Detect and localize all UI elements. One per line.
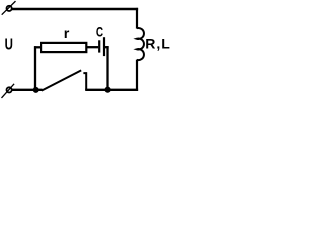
svg-text:U: U: [5, 37, 13, 54]
capacitor C: [99, 37, 108, 56]
wire top: [12, 8, 138, 10]
svg-text:r: r: [64, 26, 70, 42]
wire branch left vertical: [34, 46, 36, 90]
node B junction: [105, 87, 111, 93]
wire right lower: [136, 60, 138, 91]
node A junction: [33, 87, 39, 93]
terminal top-left: [2, 1, 16, 15]
terminal bottom-left: [2, 84, 15, 98]
svg-text:R,L: R,L: [145, 36, 171, 52]
wire lead left: [34, 46, 42, 48]
wire branch right vertical: [106, 46, 108, 90]
wire bottom left: [12, 89, 43, 91]
wire lead resistor-capacitor: [87, 46, 99, 48]
resistor r: [41, 43, 86, 52]
inductor R,L: [137, 28, 144, 60]
svg-text:C: C: [96, 23, 103, 39]
wire bottom right: [85, 89, 138, 91]
wire right upper: [136, 8, 138, 29]
switch S fixed contact post: [83, 73, 86, 90]
switch S blade: [42, 70, 81, 90]
